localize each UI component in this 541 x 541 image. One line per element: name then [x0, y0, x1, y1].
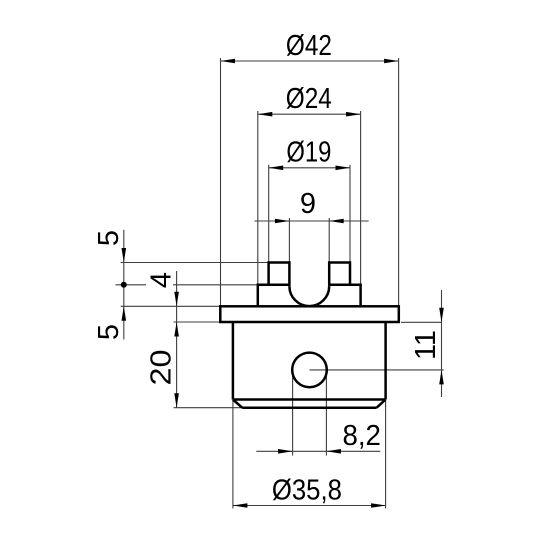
arrow O19 left	[269, 166, 284, 171]
dim line O19	[269, 167, 350, 169]
slot arc	[289, 286, 329, 306]
ext line hole center	[310, 369, 444, 371]
arrowheads	[121, 59, 444, 508]
boss right	[329, 285, 360, 307]
arrow O24 left	[258, 112, 273, 117]
svg-text:Ø24: Ø24	[286, 83, 332, 115]
svg-text:5: 5	[93, 324, 125, 340]
dim line 11 vertical right	[441, 290, 443, 397]
arrow 11 top down	[439, 308, 444, 323]
ext line hole left tangent	[292, 370, 294, 456]
lug left	[269, 263, 290, 287]
hole	[292, 353, 327, 388]
ext line O24 right	[360, 111, 362, 285]
dim line 9	[254, 220, 368, 222]
dot terminator	[121, 282, 127, 288]
arrow 9 left	[275, 219, 290, 224]
arrow O42 left	[221, 59, 236, 64]
ext line body left	[232, 401, 234, 509]
body right edge	[384, 322, 387, 400]
flange	[220, 306, 398, 322]
ext line body bottom left	[174, 407, 243, 409]
ext line flange bottom right	[401, 321, 442, 323]
arrow 20 bottom down	[174, 393, 179, 408]
arrow O24 right	[346, 112, 361, 117]
arrow 11 bottom up	[439, 370, 444, 385]
arrow 4 top down	[174, 292, 179, 307]
arrow O35,8 right	[371, 503, 386, 508]
chamfer right diagonal	[377, 400, 386, 408]
svg-text:8,2: 8,2	[342, 420, 381, 452]
svg-text:4: 4	[145, 272, 177, 288]
chamfer top line	[233, 398, 386, 401]
svg-text:9: 9	[300, 188, 316, 220]
ext line body right	[385, 401, 387, 509]
arrow 4/20 shared up	[174, 322, 179, 337]
dim line 5/5 vertical left	[123, 230, 125, 340]
chamfer left diagonal	[233, 400, 242, 408]
svg-text:20: 20	[145, 350, 177, 386]
ext line O24 left	[257, 111, 259, 285]
thin dimension/extension lines	[116, 58, 444, 509]
svg-text:Ø35,8: Ø35,8	[272, 475, 342, 507]
dim line 8,2	[256, 450, 380, 452]
svg-text:11: 11	[410, 330, 442, 360]
dim line O42	[221, 60, 399, 62]
arrow 5 bottom up	[122, 306, 127, 321]
lug right	[329, 263, 350, 287]
ext line flange bottom left	[174, 321, 221, 323]
ext line O19 right	[349, 165, 351, 263]
ext line O42 left	[220, 58, 222, 306]
ext line flange top level	[121, 305, 221, 307]
svg-text:Ø19: Ø19	[286, 137, 331, 169]
arrow O19 right	[336, 166, 351, 171]
body bottom edge	[242, 406, 376, 409]
dim line O35,8	[233, 505, 386, 507]
svg-text:Ø42: Ø42	[286, 30, 332, 62]
ext line hole right tangent	[325, 370, 327, 456]
arrow 8,2 left	[278, 449, 293, 454]
arrow 8,2 right	[326, 449, 341, 454]
arrow 9 right	[329, 219, 344, 224]
ext line slot left	[288, 218, 290, 263]
ext line O42 right	[398, 58, 400, 306]
ext line O19 left	[268, 165, 270, 263]
ext line lug top level	[121, 262, 269, 264]
arrow 5 top down	[122, 248, 127, 263]
dim line O24	[258, 113, 361, 115]
ext line boss top level (gap for text 4)	[116, 284, 147, 286]
arrow O42 right	[384, 59, 399, 64]
body left edge	[232, 322, 235, 400]
part outline (thick)	[220, 263, 398, 408]
boss left	[258, 285, 290, 307]
dim line 4/20 vertical	[176, 271, 178, 408]
arrow O35,8 left	[233, 503, 248, 508]
svg-text:5: 5	[93, 230, 125, 246]
ext line slot right	[328, 218, 330, 263]
